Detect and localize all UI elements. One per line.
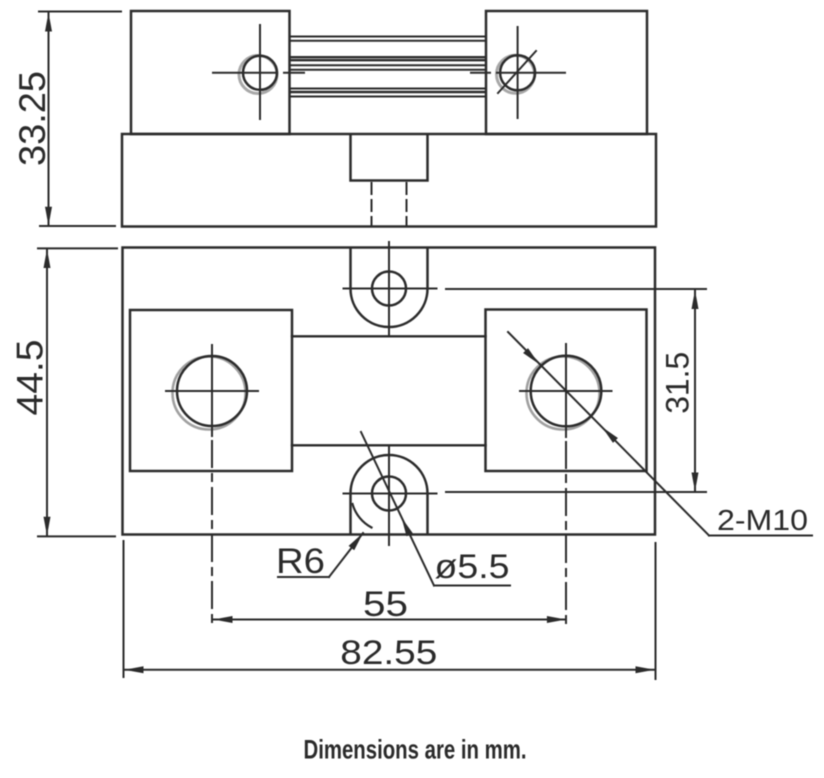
bottom view: strip edge lower xyxy=(292,444,486,446)
top view: left bolt hole vertical centerline xyxy=(259,25,261,119)
dimension 55 arrow right xyxy=(547,616,566,623)
dimension 44.5 line xyxy=(46,249,48,536)
leader 2-M10 arrow lower xyxy=(602,427,618,443)
top view: right terminal block xyxy=(486,11,647,134)
leader dia5.5 underline xyxy=(434,585,510,587)
dimension 82.55 arrow left xyxy=(125,666,144,673)
leader 2-M10 arrow upper xyxy=(523,348,539,364)
top view: right bolt hole ghost ring xyxy=(497,55,535,93)
bottom view: right pad vertical centerline xyxy=(565,344,567,437)
dimension 44.5 arrow up xyxy=(44,249,51,268)
dimension 44.5 top extension line xyxy=(38,247,117,249)
top view: resistance strip line 6 xyxy=(292,69,486,71)
dimension 33.25 top extension line xyxy=(39,11,121,13)
bottom view: bottom slot hole xyxy=(372,477,406,511)
dimension 82.55 left extension line xyxy=(123,541,125,677)
svg-text:31.5: 31.5 xyxy=(660,352,696,414)
top view: resistance strip line 4 xyxy=(292,59,486,61)
bottom view: left pad tapped hole xyxy=(177,356,247,426)
top view: base bar xyxy=(122,134,656,227)
bottom view: top slot hole xyxy=(372,272,406,306)
dimension 82.55 right extension line xyxy=(655,543,657,679)
svg-text:R6: R6 xyxy=(276,542,325,581)
bottom view: right pad horizontal centerline xyxy=(520,390,612,392)
top view: hidden hole line left xyxy=(371,183,373,226)
top view: resistance strip line 8 xyxy=(292,91,486,93)
bottom view: left pad vertical centerline xyxy=(211,345,213,436)
bottom view: left pad horizontal centerline xyxy=(166,390,258,392)
leader R6 arrow xyxy=(349,533,363,550)
bottom view: bottom slot horizontal centerline xyxy=(344,493,437,495)
top view: left terminal block xyxy=(131,11,290,134)
top view: hidden hole line right xyxy=(406,183,408,226)
svg-text:82.55: 82.55 xyxy=(340,634,437,672)
svg-text:44.5: 44.5 xyxy=(10,340,51,416)
top view: resistance strip line 5 xyxy=(292,64,486,66)
svg-text:55: 55 xyxy=(363,585,408,624)
bottom view: left terminal pad xyxy=(130,310,292,471)
bottom view: left pad centerline extension to 55 dim xyxy=(211,441,213,628)
top view: resistance strip line 1 xyxy=(292,36,486,38)
top view: left bolt hole horizontal centerline xyxy=(213,72,304,74)
dimension 31.5 bottom extension line xyxy=(446,491,706,493)
bottom view: bottom slot extra arc xyxy=(353,504,372,528)
bottom view: top slot horizontal centerline xyxy=(344,288,437,290)
top view: left bolt hole ghost ring xyxy=(239,56,277,94)
top view: right bolt hole thread slash xyxy=(498,51,536,93)
bottom view: top slot boss outline xyxy=(351,248,428,327)
top view: resistance strip line 7 xyxy=(292,88,486,90)
bottom view: right pad tapped hole xyxy=(531,356,602,427)
bottom view: strip edge upper xyxy=(292,335,486,337)
bottom view: left pad hole ghost ring xyxy=(173,357,246,430)
bottom view: bottom slot boss outline xyxy=(351,455,428,534)
top view: center boss front outline xyxy=(351,135,428,181)
svg-text:33.25: 33.25 xyxy=(12,71,53,166)
dimension 31.5 arrow up xyxy=(692,290,699,309)
top view: right bolt hole vertical centerline xyxy=(517,27,519,118)
dimension 31.5 line xyxy=(694,290,696,492)
top view: resistance strip line 3 xyxy=(292,56,486,58)
leader R6 underline xyxy=(278,576,329,578)
bottom view: right pad hole ghost ring xyxy=(527,357,600,430)
dimension 44.5 bottom extension line xyxy=(38,535,115,537)
dimension 31.5 arrow down xyxy=(692,473,699,492)
bottom view: top slot vertical centerline xyxy=(388,242,390,335)
leader 2-M10 underline xyxy=(709,535,812,537)
bottom view: right terminal pad xyxy=(486,310,647,472)
leader R6 line xyxy=(329,533,363,577)
dimension 44.5 arrow down xyxy=(44,517,51,536)
top view: right bolt hole horizontal centerline xyxy=(471,72,565,74)
dimension 33.25 arrow up xyxy=(45,13,52,32)
dimension 33.25 bottom extension line xyxy=(40,225,115,227)
top view: resistance strip line 9 xyxy=(292,96,486,98)
svg-text:ø5.5: ø5.5 xyxy=(435,548,510,586)
dimension 82.55 arrow right xyxy=(636,666,655,673)
dimension 31.5 top extension line xyxy=(446,288,706,290)
svg-text:2-M10: 2-M10 xyxy=(717,505,808,537)
dimension 33.25 arrow down xyxy=(45,207,52,226)
bottom view: right pad centerline extension to 55 dim xyxy=(565,442,567,629)
dimension 82.55 line xyxy=(125,669,655,671)
svg-text:Dimensions are in mm.: Dimensions are in mm. xyxy=(304,735,527,765)
bottom view: bottom slot vertical centerline xyxy=(388,446,390,545)
leader dia5.5 arrow xyxy=(402,518,413,537)
bottom view: outer plate xyxy=(123,248,656,535)
top view: resistance strip line 2 xyxy=(292,40,486,42)
top view: right bolt hole xyxy=(500,55,535,90)
top view: left bolt hole xyxy=(243,56,277,90)
leader dia5.5 line xyxy=(361,432,434,586)
leader 2-M10 diagonal line xyxy=(508,332,709,536)
dimension 55 line xyxy=(214,619,566,621)
dimension 55 arrow left xyxy=(214,616,233,623)
dimension 33.25 line xyxy=(48,13,50,226)
